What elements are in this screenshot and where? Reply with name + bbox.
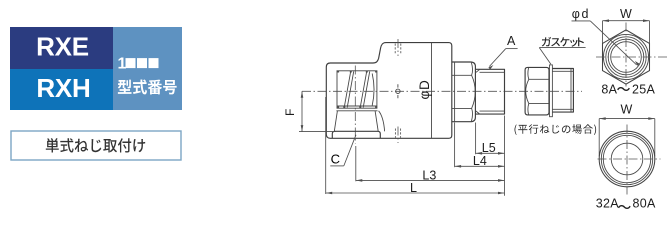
threaded nipple bbox=[475, 69, 504, 114]
svg-text:L4: L4 bbox=[473, 154, 487, 168]
model number box 1■■■ 型式番号 bbox=[113, 27, 182, 110]
main centerline bbox=[302, 90, 582, 92]
svg-text:F: F bbox=[283, 109, 297, 116]
port bore far-side arc bbox=[372, 74, 374, 106]
RXH model box bbox=[10, 69, 113, 110]
body outline bbox=[326, 43, 452, 139]
port taper bbox=[334, 111, 378, 132]
boss fillet bbox=[379, 111, 385, 132]
svg-text:L3: L3 bbox=[422, 168, 436, 182]
svg-text:25A: 25A bbox=[632, 82, 656, 96]
svg-text:32A: 32A bbox=[596, 197, 620, 211]
L4 dimension bbox=[454, 123, 456, 168]
grease hole hidden bottom bbox=[395, 129, 400, 138]
grease hole circle bbox=[396, 89, 400, 93]
gasket label ガスケット bbox=[542, 37, 584, 47]
gasket washer bbox=[550, 65, 553, 117]
svg-text:8A: 8A bbox=[601, 82, 617, 96]
port collar bbox=[332, 131, 380, 138]
svg-text:φd: φd bbox=[572, 7, 590, 21]
svg-text:A: A bbox=[507, 34, 516, 48]
gasket hex nut bbox=[525, 67, 549, 115]
small size end view hexagon bbox=[603, 30, 650, 84]
L5 dimension bbox=[476, 116, 505, 196]
body internal joint line bbox=[431, 43, 433, 139]
hex bore circle bbox=[611, 42, 642, 73]
grease hole hidden top bbox=[395, 44, 401, 54]
svg-text:φD: φD bbox=[417, 79, 432, 99]
RXE model box bbox=[10, 27, 113, 69]
L3 dimension bbox=[355, 146, 357, 181]
hex chamfer circles bbox=[603, 34, 648, 79]
svg-text:80A: 80A bbox=[633, 197, 657, 211]
port node dots bbox=[337, 71, 377, 109]
note (平行ねじの場合) bbox=[515, 124, 597, 135]
svg-text:L: L bbox=[410, 181, 417, 195]
svg-text:W: W bbox=[620, 7, 632, 21]
svg-text:W: W bbox=[621, 103, 633, 117]
threaded port box bbox=[337, 71, 377, 108]
large size end view circles bbox=[599, 131, 655, 187]
mounting type box 単式ねじ取付け bbox=[11, 131, 181, 160]
L dimension bbox=[325, 97, 327, 194]
port thread hatch bbox=[344, 71, 370, 107]
svg-text:C: C bbox=[331, 152, 340, 167]
hex centerlines bbox=[596, 56, 667, 58]
large view centerlines bbox=[598, 158, 661, 160]
parallel-thread male end bbox=[552, 69, 573, 113]
svg-text:RXE: RXE bbox=[36, 32, 89, 62]
port axis centerline bbox=[354, 66, 356, 144]
svg-text:RXH: RXH bbox=[36, 73, 90, 103]
hex nut on body bbox=[452, 62, 476, 122]
svg-text:1: 1 bbox=[118, 56, 127, 73]
svg-text:L5: L5 bbox=[482, 141, 496, 155]
